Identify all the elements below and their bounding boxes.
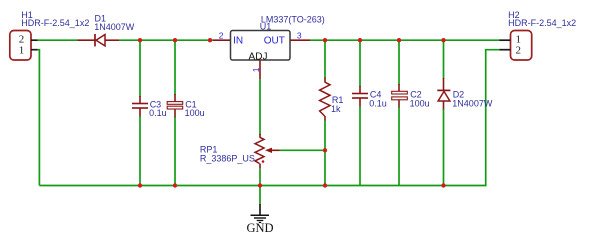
capacitor C4 <box>352 40 368 185</box>
svg-text:3: 3 <box>297 31 302 41</box>
diode D2 <box>437 40 450 185</box>
svg-text:100u: 100u <box>410 98 430 108</box>
svg-text:1: 1 <box>251 67 261 72</box>
connector H1 <box>10 31 38 61</box>
capacitor C3 <box>132 40 148 185</box>
wire RP1 wiper to R1 <box>280 149 326 151</box>
svg-text:2: 2 <box>516 44 522 56</box>
connector H2 <box>500 31 532 61</box>
node D2 bottom <box>441 183 445 187</box>
svg-text:0.1u: 0.1u <box>149 108 167 118</box>
wire U1 OUT to H2 <box>310 39 500 41</box>
regulator U1 <box>213 31 310 80</box>
node GND rail <box>258 183 262 187</box>
wire H1 pin1 down to bottom rail <box>38 50 40 186</box>
node R1 bottom <box>323 183 327 187</box>
svg-text:2: 2 <box>219 31 224 41</box>
node D2 top <box>441 38 445 42</box>
capacitor C2 polarized <box>392 40 408 185</box>
svg-text:HDR-F-2.54_1x2: HDR-F-2.54_1x2 <box>21 18 89 28</box>
svg-text:1: 1 <box>19 44 25 56</box>
svg-text:1N4007W: 1N4007W <box>452 99 493 109</box>
wire H1 pin2 to D1 <box>38 39 79 41</box>
wire rail to GND <box>259 186 261 205</box>
capacitor C1 polarized <box>167 40 183 185</box>
wire bottom rail <box>39 50 499 186</box>
svg-text:1k: 1k <box>331 104 341 114</box>
node C2 top <box>397 38 401 42</box>
wire RP1 bottom to rail <box>259 169 261 186</box>
svg-text:R_3386P_US: R_3386P_US <box>200 154 255 164</box>
node C3 top <box>138 38 142 42</box>
svg-text:IN: IN <box>233 36 243 47</box>
node C1 top <box>173 38 177 42</box>
potentiometer RP1 <box>255 134 280 169</box>
svg-text:ADJ: ADJ <box>249 51 268 62</box>
wire D1 to U1 <box>119 39 213 41</box>
node R1 wiper <box>323 148 327 152</box>
svg-text:1N4007W: 1N4007W <box>94 22 135 32</box>
node C4 top <box>358 38 362 42</box>
wire U1 ADJ to RP1 <box>259 79 261 135</box>
diode D1 <box>78 34 120 46</box>
ground <box>246 204 273 235</box>
wire R1 bottom to rail <box>324 120 326 186</box>
svg-text:OUT: OUT <box>264 36 285 47</box>
resistor R1 <box>320 40 330 121</box>
svg-text:HDR-F-2.54_1x2: HDR-F-2.54_1x2 <box>508 18 576 28</box>
node C3 bottom <box>138 183 142 187</box>
svg-text:GND: GND <box>246 221 273 235</box>
svg-text:100u: 100u <box>185 108 205 118</box>
node C1 bottom <box>173 183 177 187</box>
svg-text:0.1u: 0.1u <box>369 98 387 108</box>
node R1 top <box>323 38 327 42</box>
node U1 IN <box>208 38 212 42</box>
svg-text:LM337(TO-263): LM337(TO-263) <box>261 14 325 24</box>
